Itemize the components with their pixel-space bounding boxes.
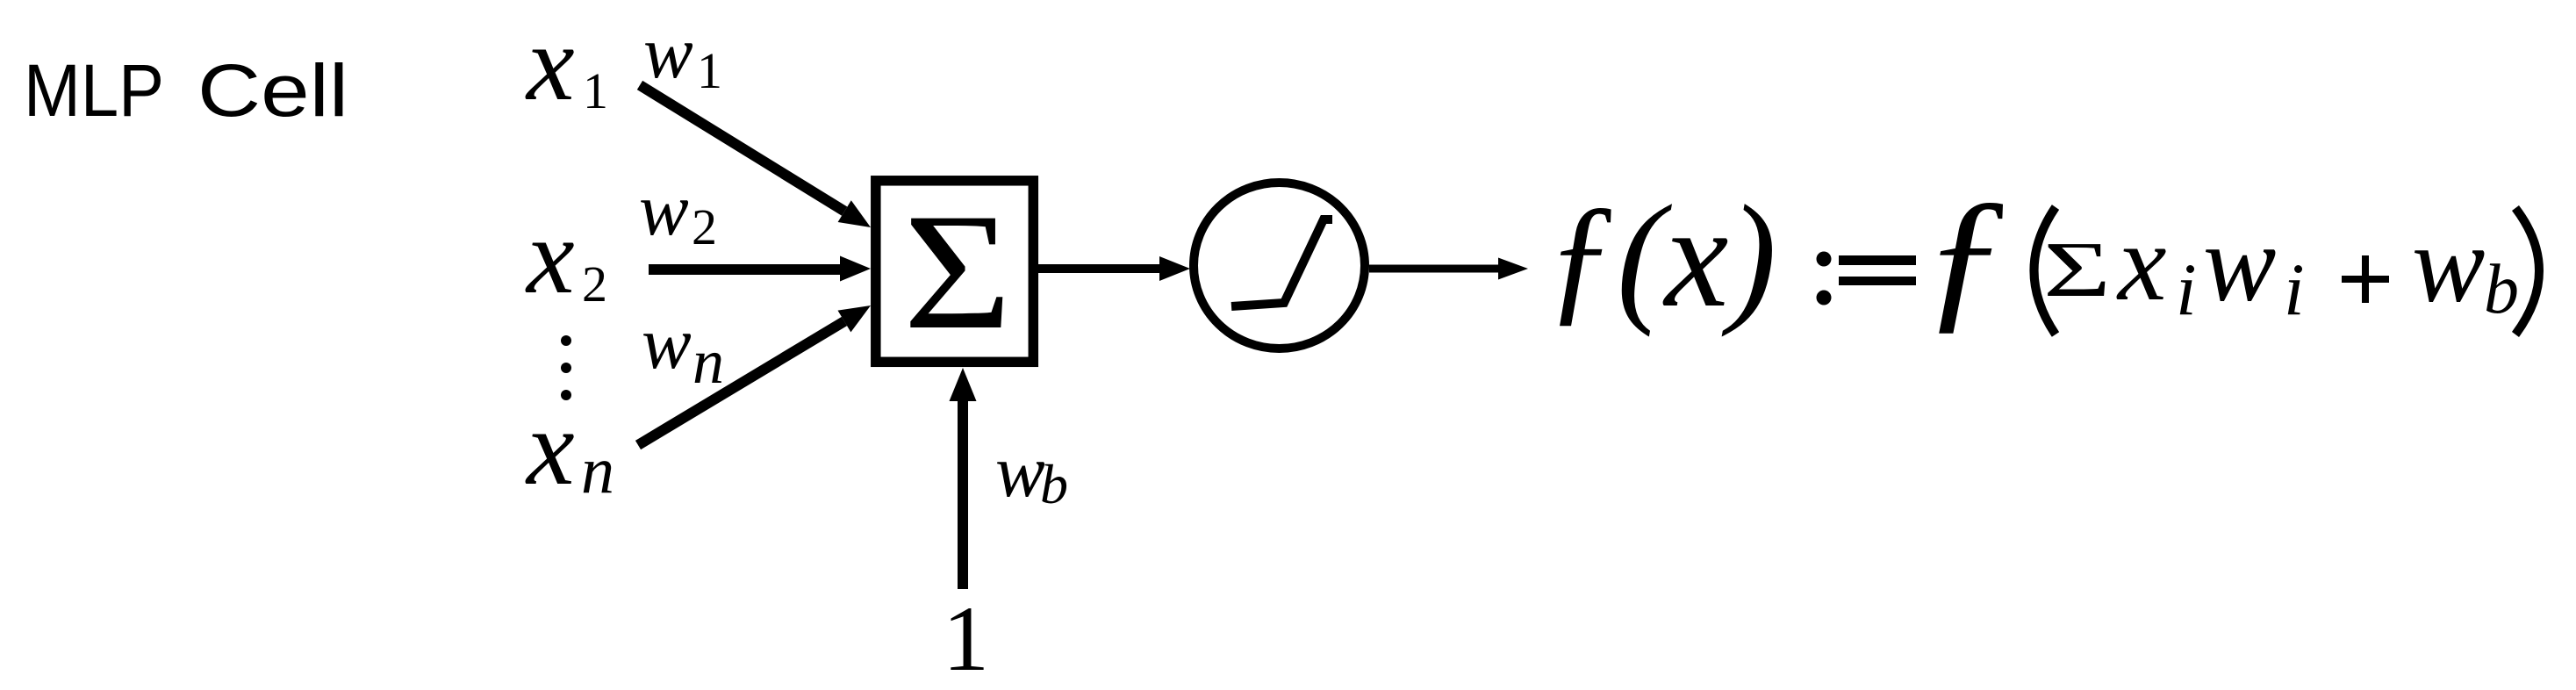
svg-text:w: w [642, 302, 692, 385]
svg-text:i: i [2284, 248, 2305, 331]
svg-text:n: n [692, 327, 724, 397]
svg-text:2: 2 [692, 198, 717, 255]
svg-text:x: x [525, 3, 575, 123]
svg-text:x: x [525, 196, 575, 316]
svg-text:MLP: MLP [24, 49, 164, 132]
svg-text:1: 1 [943, 587, 989, 690]
svg-text:2: 2 [582, 255, 607, 313]
svg-text:b: b [2484, 251, 2519, 328]
svg-text:Σ: Σ [2043, 226, 2111, 313]
svg-text:w: w [639, 169, 689, 251]
svg-text:b: b [1040, 453, 1068, 515]
svg-text:1: 1 [697, 42, 722, 99]
svg-text:w: w [995, 430, 1045, 513]
svg-text:Σ: Σ [903, 180, 1012, 364]
svg-text:ƒ: ƒ [1920, 167, 2010, 347]
svg-text:n: n [581, 434, 614, 507]
svg-text:x: x [2116, 203, 2166, 324]
svg-text:ƒ(x): ƒ(x) [1545, 176, 1776, 338]
svg-text:w: w [2412, 205, 2485, 326]
svg-text:x: x [525, 387, 575, 507]
svg-text:w: w [643, 11, 693, 94]
svg-text:i: i [2176, 248, 2197, 331]
svg-text:Cell: Cell [197, 49, 348, 132]
svg-text:1: 1 [583, 62, 608, 119]
svg-text:w: w [2203, 204, 2276, 325]
